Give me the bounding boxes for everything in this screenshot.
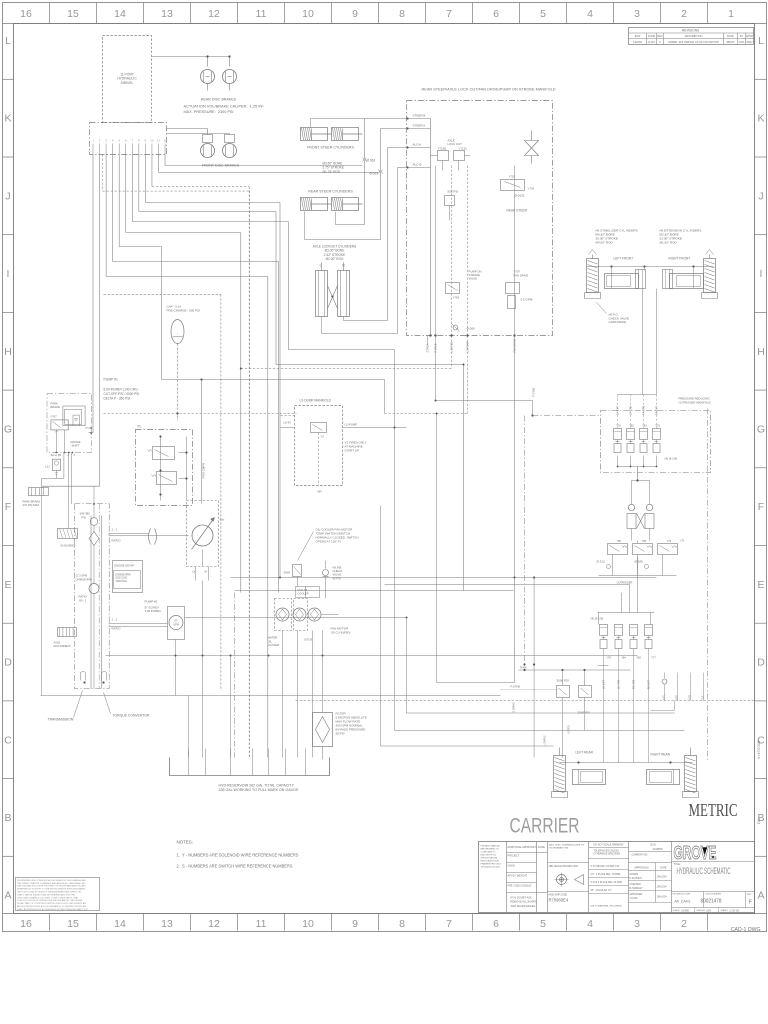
svg-text:Ø.0625: Ø.0625 <box>515 194 525 198</box>
svg-text:2: 2 <box>681 8 687 20</box>
svg-text:PROJECT: PROJECT <box>508 854 521 858</box>
svg-text:RIGHT FRONT: RIGHT FRONT <box>669 257 691 261</box>
svg-text:CONFORM TO: CONFORM TO <box>481 852 496 854</box>
svg-text:OPENS AT 120° F): OPENS AT 120° F) <box>316 540 341 544</box>
svg-text:START UP: START UP <box>345 449 360 453</box>
svg-text:10: 10 <box>302 918 314 930</box>
svg-text:REVISIONS: REVISIONS <box>682 29 699 33</box>
svg-text:5: 5 <box>540 8 546 20</box>
svg-text:GPM: GPM <box>173 624 178 627</box>
svg-text:PROPRIETARY AND CONFIDENTIAL I: PROPRIETARY AND CONFIDENTIAL INFORMATION… <box>17 879 86 882</box>
svg-text:FRAMEWORK ONLY: FRAMEWORK ONLY <box>481 863 502 866</box>
svg-text:SHIFT: SHIFT <box>71 444 79 448</box>
svg-text:12: 12 <box>163 139 167 143</box>
svg-text:COOLER: COOLER <box>268 643 280 647</box>
svg-text:Y77: Y77 <box>651 656 656 660</box>
svg-text:Ø.063: Ø.063 <box>367 159 376 163</box>
svg-text:Y84: Y84 <box>621 656 626 660</box>
svg-text:WEIGHT: WEIGHT <box>697 910 706 912</box>
svg-text:MFD/HIGHEST TO: MFD/HIGHEST TO <box>481 849 500 851</box>
svg-text:11: 11 <box>256 8 267 20</box>
svg-text:1. Y - NUMBERS ARE SOLENOID W: 1. Y - NUMBERS ARE SOLENOID WIRE REFEREN… <box>177 853 299 858</box>
svg-text:TORQUE CONVERTOR: TORQUE CONVERTOR <box>113 714 150 718</box>
svg-text:1 : 1: 1 : 1 <box>112 618 118 622</box>
svg-text:CUT-OFF PSI - 4000 PSI: CUT-OFF PSI - 4000 PSI <box>104 392 140 396</box>
svg-text:ALO B: ALO B <box>413 163 422 167</box>
svg-text:4: 4 <box>587 918 593 930</box>
svg-text:SWIVEL: SWIVEL <box>121 81 134 85</box>
svg-text:A: A <box>4 890 11 902</box>
svg-text:Servo PR: Servo PR <box>51 454 62 457</box>
svg-text:REAR STEER: REAR STEER <box>507 209 528 213</box>
svg-text:UP2: UP2 <box>676 695 679 700</box>
svg-text:CHECKED: CHECKED <box>630 884 642 886</box>
svg-text:ACTUATION VOL/BRAKE CALIPER:: ACTUATION VOL/BRAKE CALIPER: 1.25 IN³ <box>184 105 265 109</box>
svg-text:PRIVATE LABEL(S): PRIVATE LABEL(S) <box>481 845 501 848</box>
svg-text:3.5 GPM: 3.5 GPM <box>521 298 533 302</box>
svg-text:Y83: Y83 <box>636 656 641 660</box>
svg-text:(7): (7) <box>681 539 685 543</box>
svg-text:K: K <box>757 113 764 125</box>
svg-text:E: E <box>757 579 764 591</box>
svg-text:1 OF 05: 1 OF 05 <box>730 909 740 913</box>
svg-text:Ø1.50″ ROD: Ø1.50″ ROD <box>660 241 678 245</box>
svg-text:L.EXT(2): L.EXT(2) <box>450 342 454 353</box>
svg-text:6: 6 <box>493 918 499 930</box>
svg-text:Q-11C: Q-11C <box>648 40 656 44</box>
svg-text:DESCRIPTION: DESCRIPTION <box>685 34 703 38</box>
svg-text:Y75: Y75 <box>655 424 660 428</box>
svg-text:L: L <box>5 35 11 47</box>
svg-text:LEFT REAR: LEFT REAR <box>576 751 594 755</box>
svg-text:H: H <box>4 346 12 358</box>
svg-text:X.XX DECIM ± 0.8 MM ±.03: X.XX DECIM ± 0.8 MM ±.03 <box>591 866 620 868</box>
svg-text:NONE: NONE <box>682 909 690 913</box>
svg-text:40 PSI: 40 PSI <box>333 576 342 580</box>
svg-text:122659: 122659 <box>653 847 663 851</box>
svg-text:ADDED .018 ORIFICE AT OIL FAN: ADDED .018 ORIFICE AT OIL FAN MOTOR <box>668 40 719 44</box>
svg-text:IT WILL NOT WITHOUT LIMITING T: IT WILL NOT WITHOUT LIMITING THE USE THE… <box>17 899 83 902</box>
svg-text:TRANSMISSION: TRANSMISSION <box>48 718 74 722</box>
svg-text:122659: 122659 <box>633 40 642 44</box>
svg-text:ON SEPARATE SH): ON SEPARATE SH) <box>549 846 569 849</box>
svg-text:MAX. PRESSURE: 2300 PSI: MAX. PRESSURE: 2300 PSI <box>184 110 234 114</box>
svg-text:J: J <box>5 190 10 202</box>
svg-text:15AUG04: 15AUG04 <box>657 886 668 889</box>
svg-text:270 PSI MAX: 270 PSI MAX <box>23 503 40 507</box>
svg-text:Dr: Dr <box>193 570 196 574</box>
svg-text:8.54 IN³/REV (140 CM³): 8.54 IN³/REV (140 CM³) <box>104 388 138 392</box>
svg-text:16: 16 <box>20 918 32 930</box>
svg-text:REAR DISC BRAKES: REAR DISC BRAKES <box>201 98 237 102</box>
svg-text:T.CLIFF: T.CLIFF <box>630 898 639 900</box>
svg-text:OR ITS BY IT.UNLESS GIVEN. IF: OR ITS BY IT.UNLESS GIVEN. IF THE AGREEM… <box>17 891 82 894</box>
svg-text:Y767: Y767 <box>50 415 57 419</box>
svg-text:ENGINE 300 HP: ENGINE 300 HP <box>115 564 135 568</box>
svg-text:DATE: DATE <box>538 845 545 849</box>
svg-text:PUMP #2: PUMP #2 <box>145 600 158 604</box>
svg-text:UP3: UP3 <box>689 695 692 700</box>
svg-text:N2 BLADDER: N2 BLADDER <box>61 545 76 548</box>
svg-text:15AUG04: 15AUG04 <box>657 896 668 899</box>
svg-text:REV: REV <box>657 34 663 38</box>
svg-text:ALO A: ALO A <box>413 143 422 147</box>
svg-text:STEER A: STEER A <box>413 124 426 128</box>
svg-text:Y2: Y2 <box>321 435 325 439</box>
svg-text:Ø.280: Ø.280 <box>635 560 644 564</box>
svg-text:Y82: Y82 <box>629 424 634 428</box>
svg-text:METRIC: METRIC <box>689 800 738 820</box>
svg-text:E: E <box>4 579 11 591</box>
svg-text:3: 3 <box>634 8 640 20</box>
svg-text:45° ANGULAR ±1°: 45° ANGULAR ±1° <box>591 889 612 892</box>
svg-text:HYD RESERVOIR 262 GAL TOTAL CA: HYD RESERVOIR 262 GAL TOTAL CAPACITY <box>219 784 295 788</box>
svg-text:Y76: Y76 <box>616 424 621 428</box>
svg-text:T800 IDLE: T800 IDLE <box>116 580 128 583</box>
svg-text:3.48 IN³/REV: 3.48 IN³/REV <box>145 609 162 613</box>
svg-text:.070 Ø: .070 Ø <box>304 638 313 642</box>
svg-text:L: L <box>758 35 764 47</box>
svg-text:3RD ANGLE PROJECTION: 3RD ANGLE PROJECTION <box>549 865 579 868</box>
svg-text:11: 11 <box>256 918 267 930</box>
svg-text:CHARGE RPM: CHARGE RPM <box>76 579 92 582</box>
svg-text:BRAKE: BRAKE <box>51 405 61 409</box>
svg-text:ADDITIONAL APPROVALS: ADDITIONAL APPROVALS <box>508 846 537 849</box>
svg-text:LS-PUMP: LS-PUMP <box>466 341 470 353</box>
svg-text:LEFT FRONT: LEFT FRONT <box>614 257 634 261</box>
svg-text:15: 15 <box>67 918 79 930</box>
svg-text:2: 2 <box>681 918 687 930</box>
svg-text:PRE-CHARGE - 600 PSI: PRE-CHARGE - 600 PSI <box>167 308 201 312</box>
svg-text:PL: PL <box>138 425 142 429</box>
svg-text:PUMP #1: PUMP #1 <box>104 378 119 382</box>
svg-text:14: 14 <box>114 918 126 930</box>
svg-text:D: D <box>4 657 12 669</box>
svg-text:UPPER: UPPER <box>568 725 571 734</box>
svg-text:DISCONNECT: DISCONNECT <box>54 644 72 648</box>
svg-text:CARRIER: CARRIER <box>510 815 580 838</box>
svg-text:RATIO: RATIO <box>112 539 122 543</box>
svg-text:UP1: UP1 <box>663 695 666 700</box>
svg-text:B0021474: B0021474 <box>757 741 762 760</box>
svg-text:3000 PSI: 3000 PSI <box>557 679 570 683</box>
svg-text:REV: REV <box>747 894 752 896</box>
svg-text:ENG.NOTIFYG.: ENG.NOTIFYG. <box>481 855 497 857</box>
svg-text:DO NOT SCALE DRAWING: DO NOT SCALE DRAWING <box>594 844 624 847</box>
svg-text:236 GAL WORKING TO FULL MARK O: 236 GAL WORKING TO FULL MARK ON GAUGE <box>219 788 299 792</box>
svg-text:REMOVE ALL BURRS: REMOVE ALL BURRS <box>511 900 537 904</box>
svg-text:4: 4 <box>587 8 593 20</box>
svg-text:S.SWING: S.SWING <box>513 702 516 713</box>
svg-text:ZONE: ZONE <box>648 34 655 38</box>
svg-text:LOCK OUT: LOCK OUT <box>448 142 463 146</box>
svg-text:2. S - NUMBERS ARE SWITCH WIR: 2. S - NUMBERS ARE SWITCH WIRE REFERENCE… <box>177 864 293 869</box>
svg-text:FAN DRIVE: FAN DRIVE <box>514 274 529 278</box>
svg-text:HYDRAULIC SCHEMATIC: HYDRAULIC SCHEMATIC <box>677 866 731 876</box>
svg-text:G: G <box>4 424 12 436</box>
svg-text:STEER B: STEER B <box>413 114 426 118</box>
svg-text:SHEET: SHEET <box>721 910 729 912</box>
svg-text:9: 9 <box>352 918 358 930</box>
svg-text:K: K <box>4 113 11 125</box>
svg-text:G: G <box>757 424 765 436</box>
svg-text:SPECIFICATION: SPECIFICATION <box>481 857 498 860</box>
svg-text:Ø1.75″ ROD: Ø1.75″ ROD <box>323 170 341 174</box>
svg-text:SCALE: SCALE <box>673 909 681 912</box>
svg-text:OUTRIGGER MANIFOLD: OUTRIGGER MANIFOLD <box>679 400 711 404</box>
svg-text:15: 15 <box>67 8 79 20</box>
svg-text:10: 10 <box>302 8 314 20</box>
svg-text:S/A TO MATERIAL THICKNESS: S/A TO MATERIAL THICKNESS <box>591 905 623 908</box>
svg-text:TANK: TANK <box>520 666 527 670</box>
svg-text:CAD-1 DWG: CAD-1 DWG <box>731 927 761 933</box>
svg-text:HYD OIL: HYD OIL <box>298 588 309 592</box>
svg-text:Ø.063: Ø.063 <box>369 172 378 176</box>
svg-text:DATE: DATE <box>727 34 734 38</box>
svg-text:12: 12 <box>208 8 220 20</box>
svg-text:8: 8 <box>399 918 405 930</box>
svg-text:H: H <box>757 346 765 358</box>
svg-text:VALVE: VALVE <box>469 277 478 281</box>
svg-text:1: 1 <box>728 8 734 20</box>
svg-text:P.STAB: P.STAB <box>511 685 521 689</box>
svg-text:BY: BY <box>740 34 744 38</box>
svg-text:RIGHT REAR: RIGHT REAR <box>651 753 671 757</box>
svg-text:THE SOLE AND EXCLUSIVE PROPERT: THE SOLE AND EXCLUSIVE PROPERTY OF GROVE… <box>17 885 86 888</box>
svg-text:2000 PSI: 2000 PSI <box>578 711 591 715</box>
svg-text:X.XXX 3 PLACE DEC ±0.4MM: X.XXX 3 PLACE DEC ±0.4MM <box>591 881 622 884</box>
svg-text:3: 3 <box>634 918 640 930</box>
svg-text:F: F <box>5 501 11 513</box>
svg-text:S929: S929 <box>284 571 291 575</box>
svg-text:13: 13 <box>161 8 173 20</box>
svg-text:L.SWING: L.SWING <box>544 735 547 745</box>
svg-text:C: C <box>4 734 12 746</box>
svg-text:CKD: CKD <box>739 40 745 44</box>
svg-text:ST: ST <box>174 620 178 623</box>
svg-text:PRE / SIZE CONSULT: PRE / SIZE CONSULT <box>508 885 533 888</box>
svg-text:SHALL BE REPRODUCED A CONFIDEN: SHALL BE REPRODUCED A CONFIDENCE IN THE … <box>17 908 89 911</box>
svg-text:OTHERWISE SPECIFIED: OTHERWISE SPECIFIED <box>594 853 621 855</box>
svg-text:DISCLOSED, EXAMPLE OR OTHER. I: DISCLOSED, EXAMPLE OR OTHER. IT ANY OTHE… <box>17 896 79 899</box>
svg-text:Ø.080: Ø.080 <box>467 327 476 331</box>
svg-text:Y80: Y80 <box>617 539 622 543</box>
svg-text:N/A: N/A <box>707 909 712 913</box>
svg-text:DRAWN: DRAWN <box>630 873 639 876</box>
svg-text:80021478: 80021478 <box>701 899 722 905</box>
svg-text:APVD: APVD <box>746 34 753 38</box>
svg-text:Y79: Y79 <box>667 539 672 543</box>
svg-text:7: 7 <box>446 918 452 930</box>
svg-text:74 W20000-00-G00.: 74 W20000-00-G00. <box>481 867 501 869</box>
svg-text:12: 12 <box>208 918 220 930</box>
svg-text:DATE: DATE <box>660 867 667 870</box>
svg-text:.50 CU IN/REV: .50 CU IN/REV <box>331 631 351 635</box>
svg-text:APPROVALS: APPROVALS <box>634 867 649 870</box>
svg-text:Y86: Y86 <box>642 539 647 543</box>
svg-text:RATIO: RATIO <box>112 627 122 631</box>
svg-text:OR ANY PART OF IT NOR WILL REP: OR ANY PART OF IT NOR WILL REPRODUCED NO… <box>17 902 86 905</box>
svg-text:Y703: Y703 <box>453 296 460 300</box>
svg-text:I: I <box>7 268 10 280</box>
svg-text:Y713B: Y713B <box>438 147 447 151</box>
svg-text:1 : 1: 1 : 1 <box>112 528 118 532</box>
svg-text:Y703: Y703 <box>528 187 535 191</box>
svg-text:Ø2.00″ ROD: Ø2.00″ ROD <box>326 257 344 261</box>
svg-text:AXLE: AXLE <box>54 641 61 645</box>
svg-text:28NOV: 28NOV <box>726 40 735 44</box>
svg-text:ANSI SHIP CODE: ANSI SHIP CODE <box>549 894 568 897</box>
svg-text:METHOD REPRODUCED A GOOD RESEA: METHOD REPRODUCED A GOOD RESEARCH. TO FU… <box>17 905 87 908</box>
svg-text:8: 8 <box>399 8 405 20</box>
svg-text:L21: L21 <box>45 465 50 469</box>
svg-text:Y713C: Y713C <box>459 147 468 151</box>
svg-text:TOLERANCES UNLESS: TOLERANCES UNLESS <box>594 850 620 853</box>
svg-text:THAT IT MAY BE SUBJECT MATTER: THAT IT MAY BE SUBJECT MATTER WHEREIN AN… <box>17 893 75 896</box>
svg-text:AND SHARP EDGES.: AND SHARP EDGES. <box>511 904 537 908</box>
svg-text:(4) Ø.130: (4) Ø.130 <box>665 457 678 461</box>
svg-text:APPROVED: APPROVED <box>630 893 643 896</box>
svg-text:.80 : 1: .80 : 1 <box>79 599 87 603</box>
svg-text:A: A <box>757 890 764 902</box>
svg-text:PWD CMPN: PWD CMPN <box>202 463 206 479</box>
svg-text:COOLER: COOLER <box>298 591 309 595</box>
svg-text:Ø.312: Ø.312 <box>597 560 606 564</box>
svg-text:GROVE: GROVE <box>674 843 717 863</box>
svg-text:PLT: PLT <box>702 695 705 700</box>
svg-text:LS DUMP MANIFOLD: LS DUMP MANIFOLD <box>300 399 332 403</box>
svg-text:Toir: Toir <box>220 518 225 522</box>
svg-text:10: 10 <box>150 139 154 143</box>
svg-text:DWG NUMBER: DWG NUMBER <box>706 894 722 896</box>
svg-text:THE SUBJECT MATTER CONTAINED A: THE SUBJECT MATTER CONTAINED ARE AND/OR … <box>17 882 85 885</box>
svg-text:MAH: MAH <box>747 40 753 44</box>
svg-text:FRONT STEER CYLINDERS: FRONT STEER CYLINDERS <box>307 146 354 150</box>
svg-text:P.STAB: P.STAB <box>532 388 536 397</box>
svg-text:LS-PUMP: LS-PUMP <box>345 423 358 427</box>
svg-text:DELTA P - 350 PSI: DELTA P - 350 PSI <box>104 396 131 400</box>
svg-text:Y81: Y81 <box>642 424 647 428</box>
svg-text:REAR STEER CYLINDERS: REAR STEER CYLINDERS <box>308 190 353 194</box>
svg-text:D.SCHOEN: D.SCHOEN <box>630 878 642 880</box>
svg-text:9: 9 <box>352 8 358 20</box>
svg-text:28 PSI: 28 PSI <box>336 732 345 736</box>
svg-text:Y78: Y78 <box>606 656 611 660</box>
svg-text:I: I <box>760 268 763 280</box>
svg-text:REAR STEER/AXLE LOCK OUT/FAN D: REAR STEER/AXLE LOCK OUT/FAN DRIVE/PUMP … <box>422 88 557 92</box>
svg-text:13: 13 <box>161 918 173 930</box>
svg-text:7: 7 <box>446 8 452 20</box>
svg-text:DR: DR <box>318 490 322 494</box>
svg-text:F: F <box>758 501 764 513</box>
svg-text:F01: F01 <box>757 819 761 825</box>
svg-text:REGULATION S/N: REGULATION S/N <box>481 860 500 863</box>
svg-text:(4) Ø.136: (4) Ø.136 <box>591 617 604 621</box>
svg-text:NOTES:: NOTES: <box>177 840 193 845</box>
svg-text:PSI: PSI <box>82 516 87 520</box>
svg-text:5: 5 <box>540 918 546 930</box>
svg-text:500 PSI: 500 PSI <box>448 190 459 194</box>
svg-text:J: J <box>758 190 763 202</box>
svg-text:IF IN DOUBT ASK.: IF IN DOUBT ASK. <box>511 896 533 900</box>
svg-text:14: 14 <box>114 8 126 20</box>
svg-text:16: 16 <box>20 8 32 20</box>
svg-text:APVD / WEIGHT: APVD / WEIGHT <box>508 874 528 878</box>
svg-text:CURRENT NO.: CURRENT NO. <box>632 854 649 857</box>
svg-text:MAT'L SPEC. NUMBER(S) (SEE CH: MAT'L SPEC. NUMBER(S) (SEE CH <box>549 844 585 847</box>
svg-text:17.3 GPM: 17.3 GPM <box>76 574 88 578</box>
svg-text:11: 11 <box>157 139 160 143</box>
svg-text:15AUG04: 15AUG04 <box>657 876 668 879</box>
svg-text:B: B <box>4 812 11 824</box>
svg-text:R.HANDLEY: R.HANDLEY <box>630 887 644 890</box>
svg-text:RESERVED BY V.EXCEPT TO THE PE: RESERVED BY V.EXCEPT TO THE PEOPLE WRITE… <box>17 888 86 891</box>
svg-text:A0 CAH1: A0 CAH1 <box>675 900 691 904</box>
svg-text:LS-IN: LS-IN <box>284 421 291 425</box>
svg-text:CARTRIDGE: CARTRIDGE <box>609 320 627 324</box>
svg-text:CHKD: CHKD <box>508 864 515 868</box>
svg-text:ECN: ECN <box>635 34 641 38</box>
svg-text:OUTRIGGER: OUTRIGGER <box>617 581 633 585</box>
svg-text:Ø4.00″ ROD: Ø4.00″ ROD <box>596 241 614 245</box>
svg-text:FSCM/DWG SIZE: FSCM/DWG SIZE <box>673 894 691 896</box>
svg-text:2.5″ 2 PLACE DEC ±0.8MM: 2.5″ 2 PLACE DEC ±0.8MM <box>591 873 621 876</box>
svg-text:R70960E4: R70960E4 <box>549 898 569 903</box>
svg-text:D: D <box>757 657 765 669</box>
svg-text:6: 6 <box>493 8 499 20</box>
